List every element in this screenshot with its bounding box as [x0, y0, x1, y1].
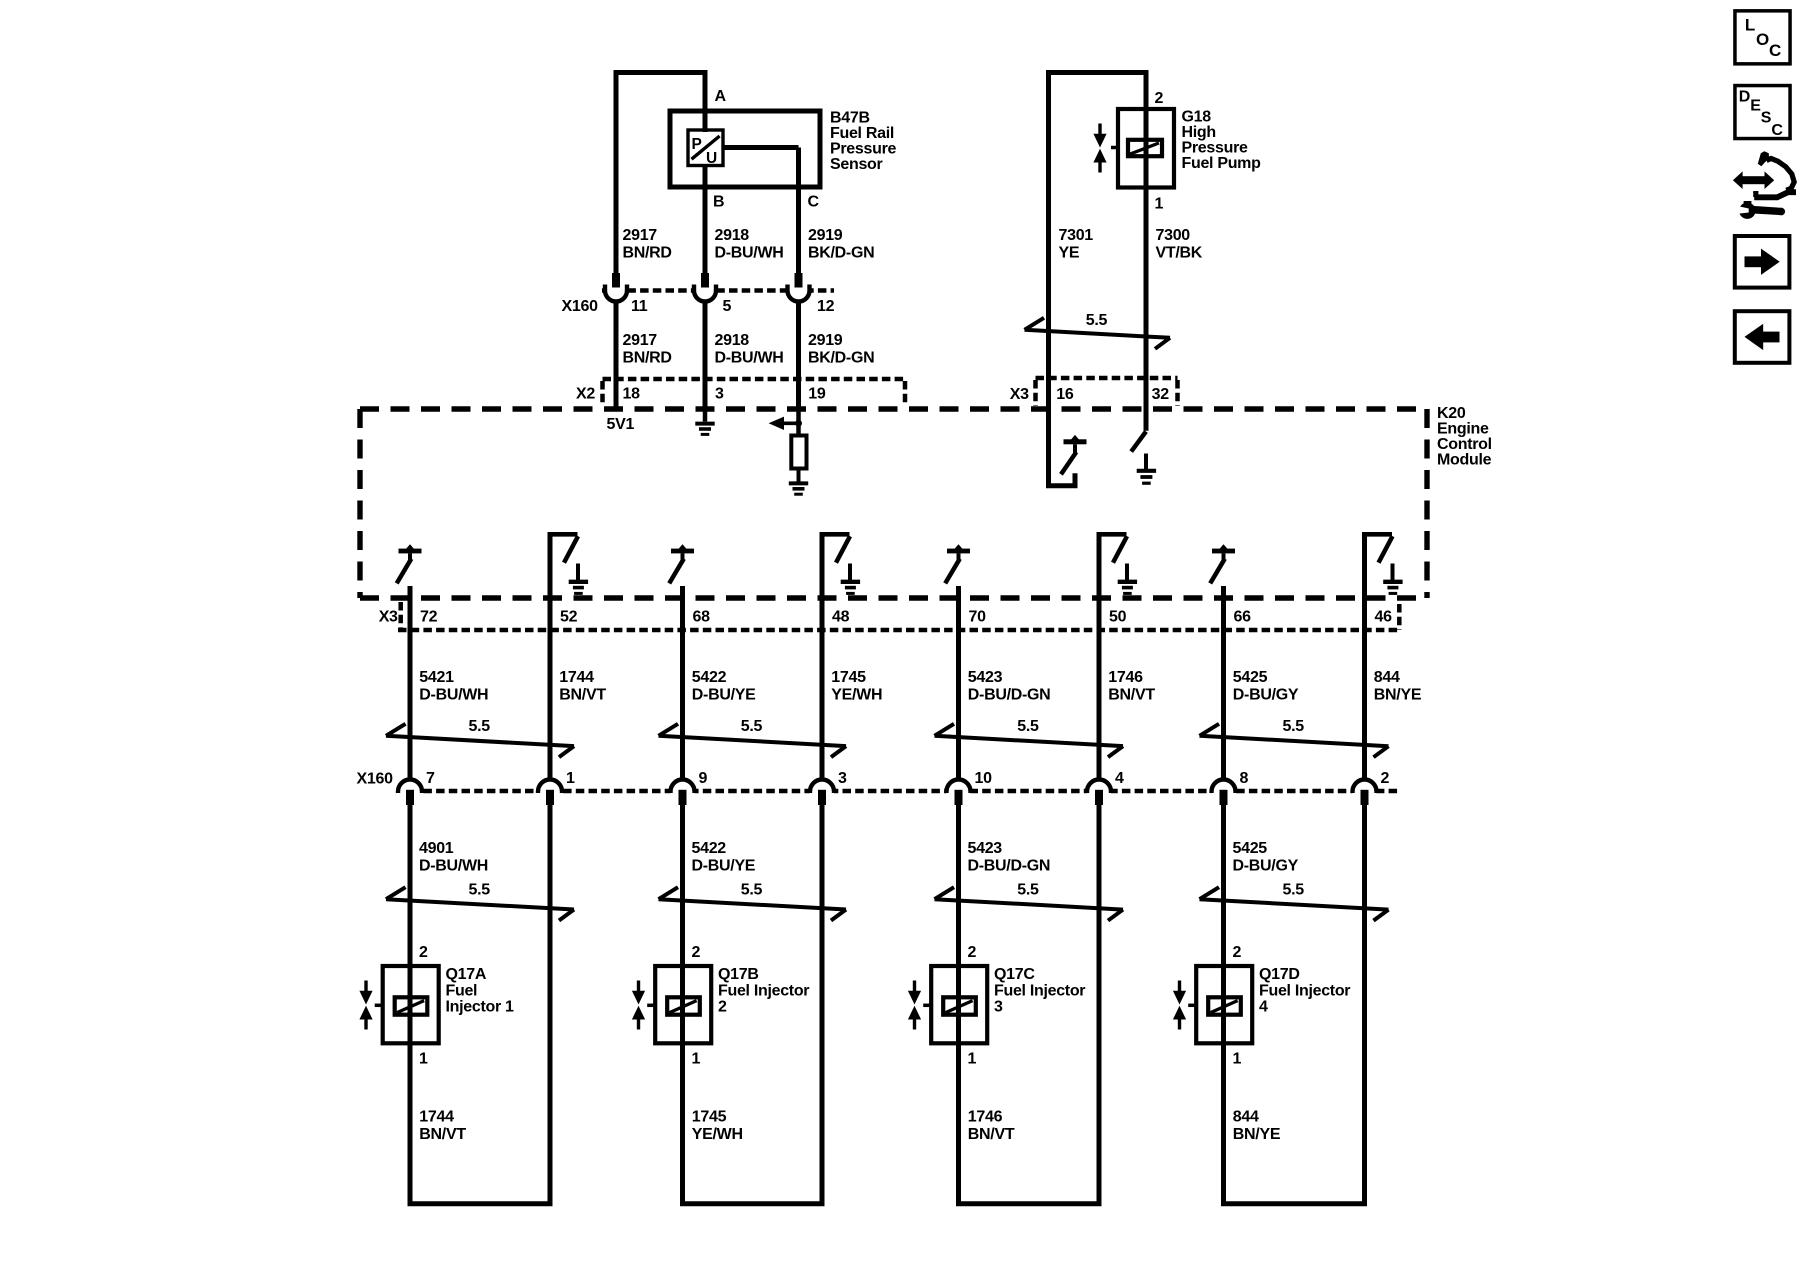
svg-text:D-BU/GY: D-BU/GY [1233, 687, 1299, 704]
svg-text:12: 12 [817, 298, 835, 315]
svg-text:5422: 5422 [692, 669, 727, 686]
svg-text:1744: 1744 [419, 1109, 454, 1126]
svg-text:5: 5 [723, 298, 732, 315]
svg-text:2918: 2918 [715, 227, 750, 244]
svg-text:7300: 7300 [1156, 227, 1191, 244]
svg-text:1: 1 [1155, 196, 1164, 213]
svg-text:B47B: B47B [830, 110, 870, 127]
svg-text:BN/VT: BN/VT [559, 687, 606, 704]
svg-text:S: S [1761, 110, 1772, 127]
svg-text:5.5: 5.5 [1283, 718, 1305, 735]
svg-text:5.5: 5.5 [741, 881, 763, 898]
svg-text:X160: X160 [357, 771, 394, 788]
svg-text:2919: 2919 [808, 332, 843, 349]
svg-text:18: 18 [623, 385, 641, 402]
svg-text:VT/BK: VT/BK [1156, 245, 1203, 262]
svg-text:D-BU/D-GN: D-BU/D-GN [968, 687, 1051, 704]
svg-text:D-BU/WH: D-BU/WH [419, 687, 488, 704]
svg-text:5423: 5423 [968, 840, 1003, 857]
svg-text:2919: 2919 [808, 227, 843, 244]
svg-text:4: 4 [1259, 999, 1268, 1016]
svg-text:5.5: 5.5 [1017, 718, 1039, 735]
svg-text:7: 7 [426, 770, 435, 787]
svg-text:3: 3 [715, 385, 724, 402]
svg-text:2: 2 [1381, 770, 1390, 787]
svg-text:66: 66 [1234, 609, 1252, 626]
svg-text:BN/RD: BN/RD [623, 350, 672, 367]
svg-text:70: 70 [969, 609, 987, 626]
svg-text:844: 844 [1233, 1109, 1259, 1126]
svg-text:1: 1 [1233, 1051, 1242, 1068]
svg-text:Fuel: Fuel [446, 983, 478, 1000]
svg-text:E: E [1750, 98, 1761, 115]
svg-text:YE: YE [1059, 245, 1080, 262]
svg-text:1: 1 [968, 1051, 977, 1068]
svg-text:32: 32 [1152, 386, 1170, 403]
svg-text:K20: K20 [1437, 405, 1466, 422]
svg-text:52: 52 [560, 609, 578, 626]
svg-text:D-BU/YE: D-BU/YE [692, 857, 756, 874]
svg-text:72: 72 [420, 609, 438, 626]
svg-text:BK/D-GN: BK/D-GN [808, 245, 874, 262]
svg-text:D-BU/WH: D-BU/WH [419, 857, 488, 874]
svg-text:YE/WH: YE/WH [831, 687, 882, 704]
svg-text:2: 2 [1233, 944, 1242, 961]
svg-text:3: 3 [838, 770, 847, 787]
svg-text:19: 19 [808, 385, 826, 402]
svg-text:2917: 2917 [623, 332, 658, 349]
svg-text:68: 68 [693, 609, 711, 626]
svg-text:2: 2 [968, 944, 977, 961]
svg-text:B: B [713, 194, 724, 211]
svg-text:D-BU/D-GN: D-BU/D-GN [968, 857, 1051, 874]
svg-text:5.5: 5.5 [741, 718, 763, 735]
svg-text:5425: 5425 [1233, 840, 1268, 857]
svg-text:A: A [715, 88, 727, 105]
svg-text:BN/VT: BN/VT [968, 1126, 1015, 1143]
svg-text:X160: X160 [562, 298, 599, 315]
svg-text:5.5: 5.5 [469, 881, 491, 898]
svg-text:5.5: 5.5 [469, 718, 491, 735]
svg-text:X3: X3 [1010, 386, 1029, 403]
svg-text:High: High [1182, 124, 1216, 141]
svg-text:Injector 1: Injector 1 [446, 999, 515, 1016]
svg-text:U: U [706, 150, 717, 167]
svg-text:O: O [1756, 30, 1769, 49]
svg-text:9: 9 [699, 770, 708, 787]
svg-text:4: 4 [1115, 770, 1124, 787]
svg-text:D-BU/WH: D-BU/WH [715, 245, 784, 262]
svg-text:X3: X3 [379, 609, 398, 626]
svg-text:BN/VT: BN/VT [1108, 687, 1155, 704]
svg-text:3: 3 [994, 999, 1003, 1016]
svg-text:5422: 5422 [692, 840, 727, 857]
svg-text:Q17B: Q17B [718, 966, 759, 983]
svg-text:2: 2 [1155, 90, 1164, 107]
svg-text:1745: 1745 [692, 1109, 727, 1126]
svg-text:Engine: Engine [1437, 421, 1489, 438]
svg-text:YE/WH: YE/WH [692, 1126, 743, 1143]
svg-text:Pressure: Pressure [830, 141, 896, 158]
svg-text:1: 1 [419, 1051, 428, 1068]
svg-text:Fuel Injector: Fuel Injector [994, 983, 1085, 1000]
svg-text:2917: 2917 [623, 227, 658, 244]
svg-text:D-BU/YE: D-BU/YE [692, 687, 756, 704]
svg-text:Control: Control [1437, 436, 1492, 453]
svg-text:BN/RD: BN/RD [623, 245, 672, 262]
svg-text:4901: 4901 [419, 840, 454, 857]
svg-text:1744: 1744 [559, 669, 594, 686]
svg-text:46: 46 [1375, 609, 1393, 626]
svg-text:Fuel Pump: Fuel Pump [1182, 155, 1262, 172]
svg-text:Fuel Rail: Fuel Rail [830, 125, 894, 142]
svg-text:G18: G18 [1182, 108, 1212, 125]
svg-text:2: 2 [692, 944, 701, 961]
svg-text:C: C [808, 194, 820, 211]
svg-text:16: 16 [1056, 386, 1074, 403]
svg-text:Pressure: Pressure [1182, 139, 1248, 156]
svg-text:7301: 7301 [1059, 227, 1094, 244]
svg-text:BN/VT: BN/VT [419, 1126, 466, 1143]
svg-text:11: 11 [631, 298, 648, 315]
svg-text:Q17A: Q17A [446, 966, 487, 983]
svg-text:D: D [1739, 89, 1751, 106]
svg-text:Sensor: Sensor [830, 156, 883, 173]
svg-text:BK/D-GN: BK/D-GN [808, 350, 874, 367]
svg-text:Module: Module [1437, 452, 1492, 469]
svg-text:1746: 1746 [1108, 669, 1143, 686]
svg-text:10: 10 [975, 770, 993, 787]
svg-text:X2: X2 [576, 385, 595, 402]
svg-text:844: 844 [1374, 669, 1400, 686]
svg-text:5.5: 5.5 [1086, 312, 1108, 329]
svg-text:Q17C: Q17C [994, 966, 1035, 983]
svg-text:48: 48 [832, 609, 850, 626]
svg-text:1745: 1745 [831, 669, 866, 686]
svg-text:D-BU/GY: D-BU/GY [1233, 857, 1299, 874]
svg-text:Fuel Injector: Fuel Injector [718, 983, 809, 1000]
svg-text:50: 50 [1109, 609, 1127, 626]
svg-text:5.5: 5.5 [1017, 881, 1039, 898]
svg-text:Q17D: Q17D [1259, 966, 1300, 983]
svg-text:C: C [1771, 122, 1783, 139]
svg-text:P: P [692, 136, 702, 153]
svg-text:D-BU/WH: D-BU/WH [715, 350, 784, 367]
svg-text:C: C [1769, 41, 1781, 60]
svg-text:1: 1 [566, 770, 575, 787]
svg-text:5423: 5423 [968, 669, 1003, 686]
svg-text:5421: 5421 [419, 669, 454, 686]
svg-text:BN/YE: BN/YE [1233, 1126, 1281, 1143]
svg-text:5V1: 5V1 [607, 416, 635, 433]
svg-text:Fuel Injector: Fuel Injector [1259, 983, 1350, 1000]
svg-text:2: 2 [718, 999, 727, 1016]
svg-text:1746: 1746 [968, 1109, 1003, 1126]
svg-text:5.5: 5.5 [1283, 881, 1305, 898]
svg-text:5425: 5425 [1233, 669, 1268, 686]
svg-text:8: 8 [1240, 770, 1249, 787]
svg-text:L: L [1745, 16, 1755, 35]
svg-text:1: 1 [692, 1051, 701, 1068]
svg-text:2: 2 [419, 944, 428, 961]
svg-text:2918: 2918 [715, 332, 750, 349]
svg-text:BN/YE: BN/YE [1374, 687, 1422, 704]
